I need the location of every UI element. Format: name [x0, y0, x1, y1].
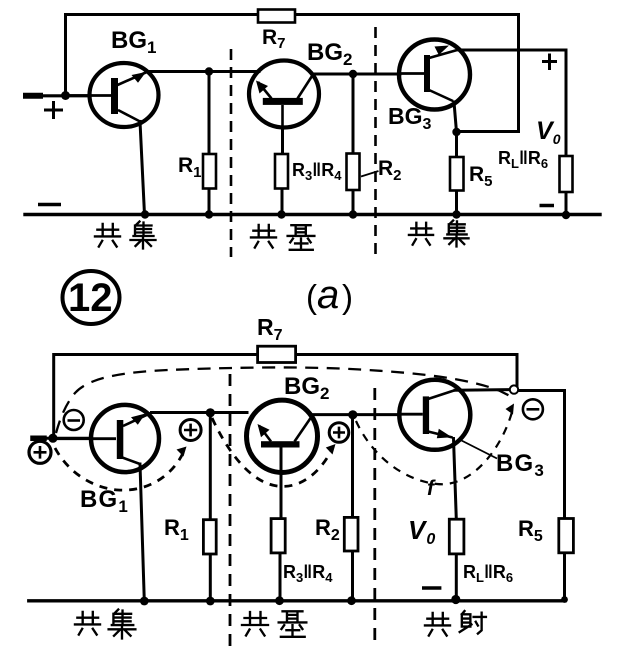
svg-text:): )	[342, 278, 353, 315]
svg-text:RL‖R6: RL‖R6	[463, 562, 513, 585]
svg-text:a: a	[317, 273, 339, 317]
svg-text:12: 12	[68, 276, 113, 320]
svg-text:RL‖R6: RL‖R6	[498, 148, 548, 171]
svg-text:(: (	[306, 278, 317, 315]
